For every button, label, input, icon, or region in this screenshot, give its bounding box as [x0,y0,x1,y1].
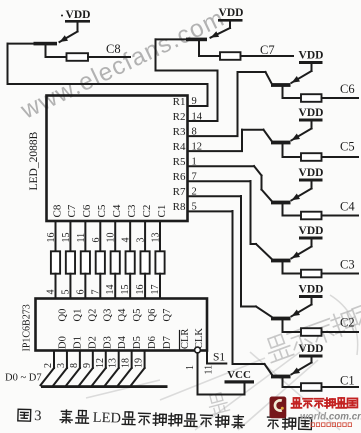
svg-text:R5: R5 [173,156,186,168]
svg-text:R2: R2 [173,111,186,123]
svg-text:Q6: Q6 [147,309,158,322]
svg-text:VDD: VDD [299,225,324,237]
svg-text:C6: C6 [81,204,93,217]
svg-text:1: 1 [185,365,196,370]
svg-text:3: 3 [56,363,67,368]
svg-text:2: 2 [43,363,54,368]
svg-text:6: 6 [75,290,86,295]
svg-text:S1: S1 [213,352,225,364]
svg-text:CLK: CLK [194,328,205,349]
svg-text:VDD: VDD [299,50,324,62]
svg-text:C7: C7 [66,204,78,217]
svg-text:VDD: VDD [299,343,324,355]
svg-text:13: 13 [108,358,119,368]
svg-text:3: 3 [34,408,42,424]
svg-text:C6: C6 [340,82,355,96]
svg-text:VDD: VDD [219,7,244,19]
svg-text:C1: C1 [156,205,168,218]
svg-text:D2: D2 [87,336,98,349]
svg-text:CLR: CLR [180,329,191,349]
svg-text:C4: C4 [340,200,355,214]
svg-text:5: 5 [60,290,71,295]
svg-text:R7: R7 [173,186,186,198]
svg-text:D1: D1 [72,336,83,349]
svg-text:C7: C7 [260,43,275,57]
svg-text:9: 9 [82,363,93,368]
svg-text:C2: C2 [141,205,153,218]
svg-text:Q5: Q5 [132,309,143,322]
svg-text:R3: R3 [173,126,186,138]
svg-text:VCC: VCC [227,369,251,381]
svg-text:Q2: Q2 [87,309,98,322]
svg-text:LED_2088B: LED_2088B [28,131,40,190]
svg-text:18: 18 [121,358,132,368]
svg-text:C2: C2 [340,316,355,330]
svg-text:R4: R4 [173,141,186,153]
svg-text:8: 8 [69,363,80,368]
svg-text:VDD: VDD [299,284,324,296]
svg-text:D7: D7 [162,336,173,349]
svg-text:world.com.cn: world.com.cn [300,412,361,423]
svg-text:C1: C1 [340,374,355,388]
svg-text:19: 19 [134,358,145,368]
svg-text:C3: C3 [340,258,355,272]
svg-text:Q7: Q7 [162,309,173,322]
svg-text:15: 15 [120,285,131,295]
svg-text:C3: C3 [126,204,138,217]
svg-text:C8: C8 [51,204,63,217]
svg-text:D4: D4 [117,335,128,349]
svg-text:Q3: Q3 [102,309,113,322]
svg-text:C4: C4 [111,204,123,217]
svg-text:VDD: VDD [299,167,324,179]
svg-text:R8: R8 [173,201,186,213]
svg-text:4: 4 [46,290,57,295]
svg-text:11: 11 [204,365,215,375]
svg-text:C5: C5 [96,204,108,217]
svg-text:12: 12 [95,358,106,368]
svg-text:C8: C8 [106,42,121,56]
svg-text:D6: D6 [147,336,158,349]
svg-text:C5: C5 [340,140,355,154]
svg-text:VDD: VDD [66,9,91,21]
svg-text:7: 7 [90,290,101,295]
svg-text:R1: R1 [173,96,186,108]
svg-text:Q4: Q4 [117,308,128,322]
svg-text:D3: D3 [102,336,113,349]
svg-text:R6: R6 [173,171,186,183]
svg-text:VDD: VDD [299,107,324,119]
svg-text:16: 16 [135,285,146,295]
svg-text:LED: LED [93,410,122,427]
svg-text:Q1: Q1 [72,309,83,322]
svg-text:D5: D5 [132,336,143,349]
svg-text:Q0: Q0 [58,309,69,322]
svg-text:IP1C6B273: IP1C6B273 [22,304,33,351]
svg-text:17: 17 [150,285,161,295]
svg-text:D0: D0 [58,336,69,349]
svg-text:14: 14 [105,285,116,295]
svg-text:D0 ~ D7: D0 ~ D7 [5,373,42,384]
